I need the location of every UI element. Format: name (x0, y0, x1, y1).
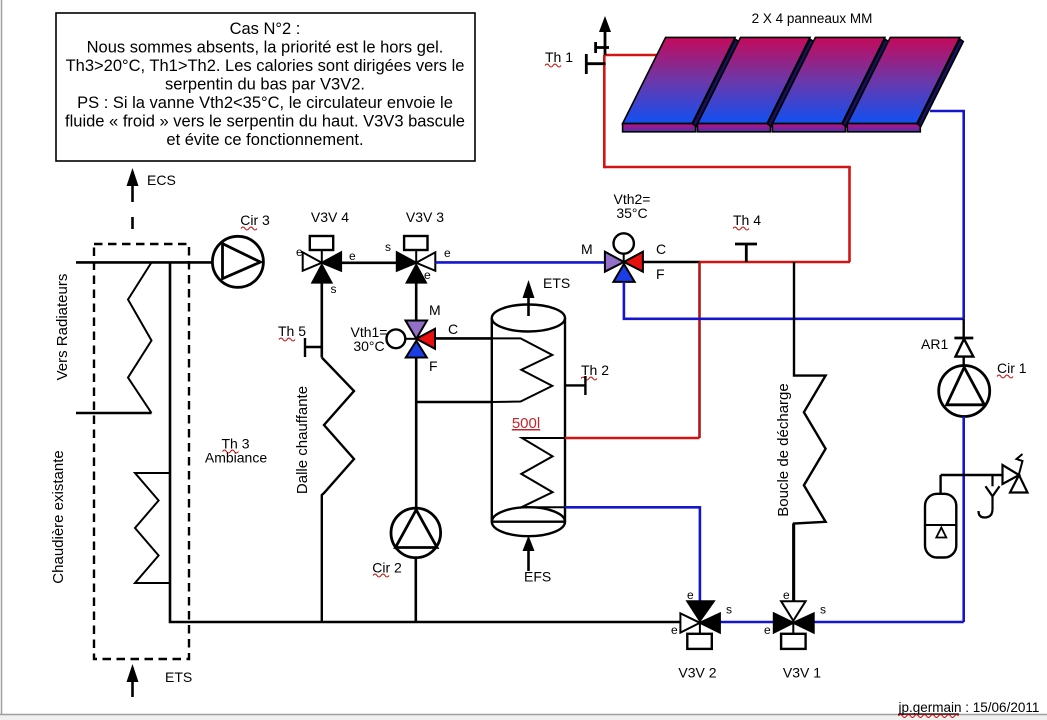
svg-text:Nous sommes absents, la priori: Nous sommes absents, la priorité est le … (87, 39, 444, 57)
tank bottom coil (521, 438, 565, 507)
solar panels 2x4 (623, 11, 964, 132)
svg-text:s: s (331, 282, 337, 296)
svg-text:e: e (349, 249, 356, 263)
svg-text:Th 2: Th 2 (581, 362, 609, 378)
boiler top coil (128, 262, 152, 413)
svg-text:Dalle chauffante: Dalle chauffante (294, 386, 311, 494)
svg-text:s: s (726, 603, 732, 617)
pipe red: riser up at 850 (848, 167, 851, 262)
pipe red: horizontal to panel left (604, 166, 851, 169)
sensor Th 4 (733, 212, 761, 262)
svg-text:C: C (656, 241, 666, 257)
valve Vth2 35C (581, 191, 666, 282)
vent arrow (599, 16, 611, 32)
wire: vertical pipe x=170 (170, 262, 680, 622)
wire: V3V3 down to Vth1 (415, 283, 418, 321)
sensor Th 5 (278, 323, 322, 357)
svg-text:Th 1: Th 1 (545, 49, 573, 65)
svg-text:Th3>20°C, Th1>Th2. Les calorie: Th3>20°C, Th1>Th2. Les calories sont dir… (66, 57, 465, 75)
wire: Cir2 down to bottom pipe (414, 558, 417, 622)
check valve AR1 (921, 319, 973, 366)
sensor Th 2 (565, 362, 609, 395)
svg-text:2 X 4 panneaux MM: 2 X 4 panneaux MM (752, 11, 873, 26)
wire blue: V3V2 up to tank (565, 507, 700, 601)
wire: tank top coil return to vertical (416, 401, 492, 404)
wire: Vth1 down to Cir2 (415, 358, 418, 510)
svg-text:s: s (820, 603, 826, 617)
svg-text:V3V 4: V3V 4 (311, 209, 349, 225)
boiler dashed box (chaudiere existante) (94, 244, 189, 659)
valve Vth1 30C (351, 302, 459, 374)
svg-text:V3V 3: V3V 3 (406, 209, 444, 225)
expansion vessel group (925, 454, 1028, 558)
Th 1 assembly (545, 16, 611, 74)
pump Cir 1 (939, 360, 1027, 417)
signature (898, 700, 1040, 718)
page frame left border (1, 0, 3, 714)
valve V3V2 (671, 588, 732, 681)
svg-text:500l: 500l (512, 415, 540, 432)
svg-text:M: M (581, 241, 593, 257)
wire: Vth1 C to tank (435, 337, 492, 340)
wire: V3V4 to V3V3 (341, 261, 397, 264)
boucle de decharge pipe (775, 262, 826, 601)
svg-text:30°C: 30°C (353, 338, 384, 354)
small sensor (596, 46, 609, 49)
svg-text:35°C: 35°C (616, 205, 647, 221)
valve V3V1 (764, 524, 826, 681)
ETS arrow tank top (523, 280, 535, 298)
svg-text:ETS: ETS (543, 275, 570, 291)
svg-text:jp.germain : 15/06/2011: jp.germain : 15/06/2011 (898, 700, 1040, 715)
ETS arrow bottom (127, 664, 193, 697)
Th 3 Ambiance label (205, 436, 267, 466)
valve V3V4 (296, 209, 356, 296)
svg-text:Cir 1: Cir 1 (997, 360, 1027, 376)
svg-text:e: e (687, 588, 694, 602)
svg-text:e: e (671, 623, 678, 637)
wire: vertical V3V4 down (320, 283, 323, 358)
svg-text:ETS: ETS (165, 669, 192, 685)
svg-text:e: e (296, 245, 303, 259)
tank top coil (492, 338, 553, 402)
sensor Th1 (586, 62, 605, 65)
svg-text:Chaudière existante: Chaudière existante (50, 450, 67, 583)
svg-text:V3V 1: V3V 1 (783, 665, 821, 681)
svg-text:Th 4: Th 4 (733, 212, 761, 228)
wire: blue Vth2 F down and right (624, 282, 964, 319)
wire: blue V3V3 to Vth2 (435, 261, 605, 264)
page frame bottom border (0, 715, 1047, 720)
pipe red: junction right to riser (700, 261, 851, 264)
boiler bottom coil (135, 473, 170, 583)
svg-text:s: s (385, 240, 391, 254)
svg-text:Vers Radiateurs: Vers Radiateurs (54, 274, 71, 381)
svg-text:Cir 2: Cir 2 (372, 560, 402, 576)
svg-text:Cir 3: Cir 3 (240, 212, 270, 228)
svg-text:Ambiance: Ambiance (205, 450, 267, 466)
svg-text:e: e (764, 623, 771, 637)
svg-text:Boucle de décharge: Boucle de décharge (775, 383, 792, 516)
svg-text:M: M (429, 302, 441, 318)
svg-text:F: F (429, 358, 438, 374)
svg-text:V3V 2: V3V 2 (678, 665, 716, 681)
svg-text:C: C (448, 321, 458, 337)
pipe red: down to tank bottom coil (698, 262, 701, 438)
vessel (925, 494, 956, 558)
svg-text:AR1: AR1 (921, 336, 948, 352)
pipe red: panel left down (603, 55, 606, 168)
svg-text:fluide « froid » vers le serpe: fluide « froid » vers le serpentin du ha… (65, 113, 465, 131)
svg-text:serpentin du bas par V3V2.: serpentin du bas par V3V2. (165, 76, 365, 94)
pipe blue: Cir1 down to bottom (962, 417, 965, 623)
safety valve (1003, 465, 1020, 484)
tank 500l (492, 275, 570, 585)
pump Cir 3 (212, 212, 270, 287)
svg-text:e: e (444, 246, 451, 260)
pipe: second stub y=413 (76, 412, 152, 415)
svg-text:e: e (424, 268, 431, 282)
svg-text:Th 5: Th 5 (278, 323, 306, 339)
ECS arrow (127, 168, 176, 229)
drain funnel (991, 475, 993, 486)
svg-text:EFS: EFS (524, 569, 551, 585)
svg-text:F: F (656, 266, 665, 282)
dalle chauffante zigzag (322, 358, 354, 623)
valve V3V3 (385, 209, 451, 283)
svg-text:Cas N°2 :: Cas N°2 : (230, 20, 301, 38)
svg-text:PS : Si la vanne Vth2<35°C, le: PS : Si la vanne Vth2<35°C, le circulate… (77, 94, 453, 112)
svg-text:e: e (783, 588, 790, 602)
svg-text:et évite ce fonctionnement.: et évite ce fonctionnement. (166, 131, 363, 149)
note text box (56, 13, 475, 161)
svg-text:ECS: ECS (147, 172, 176, 188)
pipe blue: panel right down (930, 111, 964, 319)
EFS arrow tank bottom (523, 536, 535, 552)
wire blue: bottom right runs (814, 621, 964, 624)
wire: Vth2 C to junction (643, 261, 700, 264)
pipe: top stub + main line to pump (76, 261, 213, 264)
pump Cir 2 (372, 508, 440, 577)
